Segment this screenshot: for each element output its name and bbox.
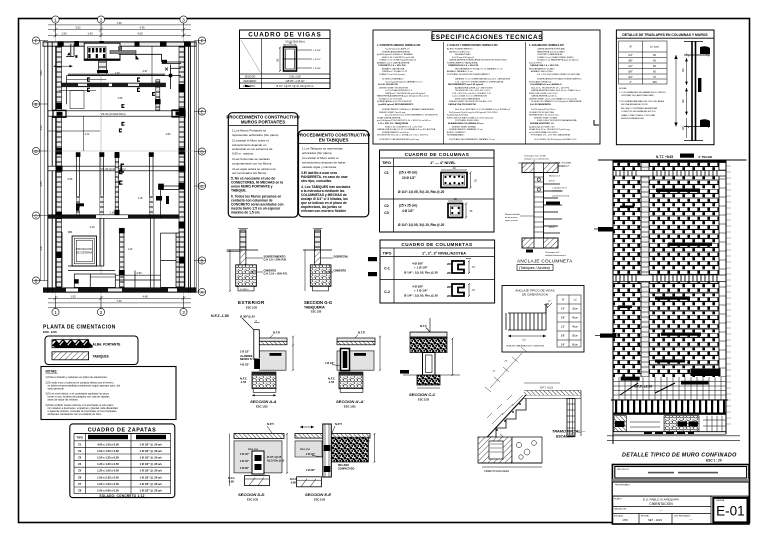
table CUADRO DE COLUMNAS	[380, 150, 495, 232]
svg-text:1.80: 1.80	[166, 133, 171, 136]
top dimension lines	[48, 23, 191, 37]
svg-text:1.93: 1.93	[70, 294, 76, 298]
svg-text:Mortero 1:5: Mortero 1:5	[549, 175, 561, 178]
svg-text:1.18: 1.18	[138, 197, 143, 200]
svg-text:SUELO S2 CONCRETO ver E-030: SUELO S2 CONCRETO ver E-030	[382, 56, 415, 59]
svg-text:0.05 m. maximo.: 0.05 m. maximo.	[232, 152, 254, 156]
svg-text:representan achurados (Ver pla: representan achurados (Ver plano).	[232, 133, 279, 137]
left elevation tag lower	[595, 334, 616, 338]
svg-text:ACERO SOBRECIMIENTO: ACERO SOBRECIMIENTO	[447, 48, 473, 51]
svg-text:h/3: h/3	[681, 99, 685, 103]
svg-text:SECCION: SECCION	[245, 76, 256, 78]
svg-text:2 Ø 3/8": 2 Ø 3/8"	[240, 467, 249, 470]
svg-text:EN TABIQUES: EN TABIQUES	[319, 137, 349, 142]
svg-text:CIMIENTO ESCALERA: CIMIENTO ESCALERA	[484, 470, 509, 473]
svg-text:SET - 2023: SET - 2023	[648, 518, 663, 522]
svg-text:SOLADO: CONCRETO 1:12: SOLADO: CONCRETO 1:12	[99, 494, 144, 498]
svg-text:N.F.C.: N.F.C.	[228, 476, 235, 480]
svg-text:ESC 1/25: ESC 1/25	[247, 497, 259, 501]
svg-text:NOTAS:: NOTAS:	[619, 87, 627, 90]
svg-text:CARGA MUERTA ZONA 3 Df=1.20 m.: CARGA MUERTA ZONA 3 Df=1.20 m. LOSAS 2.0…	[531, 89, 581, 92]
svg-text:ANCLAJE COLUMNETA: ANCLAJE COLUMNETA	[517, 259, 573, 264]
svg-text:3/8": 3/8"	[628, 59, 633, 63]
svg-text:NORMA ZONA 3: NORMA ZONA 3	[455, 53, 471, 56]
svg-text:NORMA SUELO S2 Tp=0.6 seg: NORMA SUELO S2 Tp=0.6 seg	[529, 114, 559, 117]
detail SECCION A'-A'	[325, 331, 381, 409]
grid bubble left D	[32, 147, 39, 154]
grid line col B	[100, 23, 102, 308]
svg-text:N.F.Z.: N.F.Z.	[240, 376, 247, 380]
interior wall pair right mid	[149, 152, 162, 214]
svg-text:DE CIMENTACION: DE CIMENTACION	[522, 292, 548, 296]
svg-text:Z2: Z2	[78, 449, 82, 453]
svg-text:B: B	[200, 259, 203, 264]
svg-text:Ø 1/4": 1@.05, Rto.@.20: Ø 1/4": 1@.05, Rto.@.20	[404, 294, 438, 298]
svg-text:NORMA ARMADO: NORMA ARMADO	[447, 134, 465, 137]
svg-text:DISENO SISMO NORMA: DISENO SISMO NORMA	[452, 125, 476, 128]
svg-text:PANDERETA ALBANILERIA qa=1.00: PANDERETA ALBANILERIA qa=1.00 kg/cm2 Df=…	[377, 95, 430, 98]
detail SECCION C-C	[400, 318, 460, 401]
grid bubble bottom B	[97, 308, 104, 315]
dims on diagonal	[485, 347, 527, 424]
extra dim texts	[68, 97, 171, 251]
svg-text:2.62: 2.62	[39, 70, 43, 76]
grid bubble bottom A	[52, 308, 59, 315]
grid bubble left F	[32, 37, 39, 44]
svg-text:TIPO: TIPO	[76, 436, 83, 440]
svg-text:SOBRECARGA PORTLAND SOBRECIMIE: SOBRECARGA PORTLAND SOBRECIMIENTO	[537, 78, 582, 81]
svg-text:h/3: h/3	[681, 68, 685, 72]
detail stair TRAMO INICIAL	[478, 347, 586, 473]
right dimension lines	[194, 41, 206, 293]
spec title bar	[432, 32, 542, 41]
svg-text:LOSAS 2.0 cm VIGAS DISENO SISM: LOSAS 2.0 cm VIGAS DISENO SISMO	[537, 56, 574, 59]
svg-text:RECUBRIMIENTO qa=1.00 kg/cm2: RECUBRIMIENTO qa=1.00 kg/cm2	[448, 84, 484, 86]
svg-text:C:H 1:10 + 30% P.G.: C:H 1:10 + 30% P.G.	[264, 272, 289, 276]
interior band row E upper (gray)	[54, 65, 182, 80]
svg-text:RECUBRIMIENTO ZONA 3: RECUBRIMIENTO ZONA 3	[529, 68, 555, 71]
svg-text:1/4": 1/4"	[628, 53, 633, 57]
svg-text:1:8 + 25% P.M. DISENO SISMO S/: 1:8 + 25% P.M. DISENO SISMO S/C AZOTEA	[537, 73, 580, 76]
svg-text:CIMENTACIÓN: CIMENTACIÓN	[649, 501, 673, 506]
svg-text:sobrecimiento despues de haber: sobrecimiento despues de haber	[302, 161, 346, 165]
svg-text:KING KONG TECKNOPOR ALBANILERI: KING KONG TECKNOPOR ALBANILERIA	[537, 119, 577, 122]
svg-text:ESC 1 : 20: ESC 1 : 20	[706, 459, 722, 463]
svg-text:TIPO: TIPO	[382, 161, 391, 165]
grid bubble right E	[198, 108, 205, 115]
detail ANCLAJE COLUMNETA	[505, 155, 573, 271]
svg-text:ESPECIFICACIONES TECNICAS: ESPECIFICACIONES TECNICAS	[431, 34, 543, 41]
middle bar with splice	[698, 78, 701, 92]
svg-text:KING KONG SUELO S2 C=2.5: KING KONG SUELO S2 C=2.5	[529, 93, 559, 95]
svg-text:2 Ø 1/2": 2 Ø 1/2"	[240, 460, 249, 463]
svg-text:1/4": 1/4"	[561, 308, 565, 311]
svg-text:TECKNOPOR 1:10 + 30% P.G. C=2.: TECKNOPOR 1:10 + 30% P.G. C=2.5	[455, 90, 491, 92]
svg-text:CUADRO DE COLUMNAS: CUADRO DE COLUMNAS	[405, 152, 470, 157]
svg-text:USAR CONECTORES O SOLDAR: USAR CONECTORES O SOLDAR	[621, 114, 655, 117]
svg-text:fy=4200 kg/cm2 SUELO S2: fy=4200 kg/cm2 SUELO S2	[529, 126, 555, 128]
svg-text:+ 1 Ø 1/4": + 1 Ø 1/4"	[414, 289, 428, 293]
perimeter wall bottom	[43, 287, 196, 292]
svg-text:4.35: 4.35	[139, 26, 145, 30]
svg-text:1° — 4° NIVEL: 1° — 4° NIVEL	[430, 161, 456, 165]
svg-text:2 Ø 5/8": 2 Ø 5/8"	[313, 50, 321, 52]
perimeter wall left	[48, 42, 62, 293]
column body	[534, 173, 544, 239]
svg-text:4 Ø 5/8" + 2 Ø 1/2": 4 Ø 5/8" + 2 Ø 1/2"	[285, 81, 304, 83]
svg-text:SECCION A'-A': SECCION A'-A'	[336, 399, 365, 404]
svg-text:EXTERIOR: EXTERIOR	[238, 300, 265, 305]
svg-text:LONGITUD DE EMPALME EN 70%: LONGITUD DE EMPALME EN 70%	[621, 110, 656, 113]
grid bubble top A	[52, 16, 59, 23]
svg-text:achurados (Ver plano).: achurados (Ver plano).	[302, 151, 333, 155]
zapata corner marks	[76, 196, 169, 211]
column strip (columneta)	[641, 163, 649, 378]
grid line col C	[183, 23, 185, 308]
brick field left panel	[613, 163, 641, 378]
wall outline verticals	[612, 160, 614, 445]
svg-text:+ 1 Ø 1/4": + 1 Ø 1/4"	[414, 266, 428, 270]
svg-text:DIMENSION (a x L x h): DIMENSION (a x L x h)	[94, 435, 122, 439]
small rooms bottom-left	[74, 274, 115, 287]
svg-text:PLANO:: PLANO:	[614, 497, 622, 500]
svg-text:SECCION A-A: SECCION A-A	[250, 399, 276, 404]
svg-text:NORMA MORTERO 1:5: NORMA MORTERO 1:5	[530, 122, 555, 125]
svg-text:N.F.Z.: N.F.Z.	[328, 376, 335, 380]
svg-text:2.96: 2.96	[136, 271, 142, 275]
svg-text:1.50 x 1.20 x 0.50: 1.50 x 1.20 x 0.50	[97, 456, 119, 460]
small corner mark in col3	[594, 120, 599, 125]
grid bubble left E	[32, 100, 39, 107]
svg-text:1 Ø 1/2" @ .20 a/s: 1 Ø 1/2" @ .20 a/s	[139, 456, 162, 460]
svg-text:Tecknopor e=1" Ø 3/8": Tecknopor e=1" Ø 3/8"	[524, 155, 546, 158]
grid bubble left C	[32, 212, 39, 219]
traslapes column drawing	[674, 41, 710, 141]
svg-text:Z6: Z6	[78, 475, 82, 479]
header tick course middle	[613, 275, 726, 282]
svg-text:(25 x 25 cm): (25 x 25 cm)	[399, 204, 417, 208]
svg-text:2. NO EMPALMAR MAS DEL 50% DEL: 2. NO EMPALMAR MAS DEL 50% DEL AREA	[619, 100, 664, 103]
svg-text:50cm: 50cm	[572, 335, 578, 338]
svg-text:qa=1.00 kg/cm2 U=1.5 RECUBRIMI: qa=1.00 kg/cm2 U=1.5 RECUBRIMIENTO TECKN…	[385, 115, 438, 117]
beam band row C (dark segments)	[48, 211, 179, 219]
svg-text:U=1.5 SUELO S2 R=3 (muros) SOL: U=1.5 SUELO S2 R=3 (muros) SOLADO 1:12	[534, 138, 577, 141]
svg-text:Ø 1/4":1@.05, 5@.10, Rto.@.20: Ø 1/4":1@.05, 5@.10, Rto.@.20	[398, 190, 444, 194]
stair block top-left	[66, 43, 120, 75]
svg-text:Df=1.20 m. TECKNOPOR 1:8 + 25%: Df=1.20 m. TECKNOPOR 1:8 + 25% P.M.	[531, 88, 570, 90]
svg-text:CARGA VIVA SOLADO 1:12 COLUMNA: CARGA VIVA SOLADO 1:12 COLUMNAS 4.0 cm S…	[377, 128, 436, 131]
svg-text:1/50: 1/50	[622, 518, 628, 522]
svg-text:1.43: 1.43	[87, 32, 93, 36]
svg-text:TABIQUE.: TABIQUE.	[231, 189, 247, 193]
svg-text:10 Ø 1/2": 10 Ø 1/2"	[402, 176, 416, 180]
svg-text:1. CONCRETO ARMADO: NORMA E-06: 1. CONCRETO ARMADO: NORMA E-060	[377, 44, 421, 47]
svg-text:2.67: 2.67	[39, 245, 43, 251]
svg-text:SOBRECIMIENTO ZAPATAS 7.5 cm: SOBRECIMIENTO ZAPATAS 7.5 cm	[449, 128, 483, 131]
grid bubble top C	[180, 16, 187, 23]
svg-text:MUROS PORTANTES: MUROS PORTANTES	[241, 120, 285, 125]
svg-text:TABIQUERIA: TABIQUERIA	[304, 306, 325, 310]
svg-text:vigas y techo: vigas y techo	[505, 219, 519, 222]
svg-text:de descanso: de descanso	[505, 217, 518, 219]
svg-text:1°, 2°, 3° NIVEL/AZOTEA: 1°, 2°, 3° NIVEL/AZOTEA	[422, 252, 466, 256]
interior wall band x120 lower	[119, 228, 125, 287]
svg-text:SOBRECARGA PANDERETA: SOBRECARGA PANDERETA	[382, 50, 410, 53]
svg-text:2.97: 2.97	[115, 72, 120, 75]
svg-text:suelo presente.: suelo presente.	[48, 387, 65, 390]
title block outer frame	[612, 465, 749, 525]
grid bubble left B	[32, 277, 39, 284]
svg-text:Z5: Z5	[78, 469, 82, 473]
svg-text:Z1: Z1	[78, 442, 82, 446]
traslapes mini table	[619, 41, 668, 84]
svg-text:60cm: 60cm	[572, 344, 578, 347]
svg-text:N.P.T. +0.15: N.P.T. +0.15	[540, 387, 554, 390]
svg-text:1 Ø 1/2" @ .20 a/s: 1 Ø 1/2" @ .20 a/s	[139, 462, 162, 466]
svg-text:ESC 1/25: ESC 1/25	[246, 306, 258, 310]
svg-text:CUADRO DE COLUMNETAS: CUADRO DE COLUMNETAS	[401, 242, 472, 247]
svg-text:Ø 1/4":1@.05, 5@.10, Rto.@.20: Ø 1/4":1@.05, 5@.10, Rto.@.20	[398, 223, 444, 227]
svg-text:1 Ø 1/2" @ .20 a/s: 1 Ø 1/2" @ .20 a/s	[139, 489, 162, 493]
svg-text:2 Ø 1/2": 2 Ø 1/2"	[240, 453, 249, 456]
interior wall band mid room	[115, 152, 120, 215]
svg-text:SECCION C-C: SECCION C-C	[409, 392, 436, 397]
grid bubble right C2	[198, 182, 205, 189]
second strip	[612, 482, 749, 496]
svg-text:KING KONG PANDERETA: KING KONG PANDERETA	[455, 98, 480, 101]
leader marks left of columnetas table	[368, 257, 377, 261]
svg-text:ver E-030 NORMA CICLOPEO: ver E-030 NORMA CICLOPEO	[529, 131, 558, 134]
svg-text:E: E	[200, 110, 203, 115]
svg-text:UBICACION:: UBICACION:	[614, 507, 627, 510]
svg-text:CONCRETO 1:8 + 25% P.M.: CONCRETO 1:8 + 25% P.M.	[378, 65, 406, 67]
title CUADRO DE VIGAS	[240, 38, 331, 40]
detail SECCION G-G tabiqueria	[303, 229, 348, 314]
svg-text:LOSAS 2.0 cm R=3 (muros): LOSAS 2.0 cm R=3 (muros)	[379, 73, 405, 76]
svg-text:Z=0.35 TIPO I: Z=0.35 TIPO I	[529, 62, 542, 64]
svg-text:-0.80: -0.80	[290, 480, 296, 484]
svg-text:2 Ø 3/8": 2 Ø 3/8"	[306, 469, 315, 472]
top area small details	[110, 46, 152, 83]
spec column dividers	[443, 42, 445, 144]
detail EXTERIOR wall-foundation	[227, 229, 288, 310]
svg-text:conjuntamente con los Muros.: conjuntamente con los Muros.	[232, 161, 272, 165]
svg-text:C=2.5 LOSAS 2.0 cm CIMENTACION: C=2.5 LOSAS 2.0 cm CIMENTACION	[452, 95, 487, 98]
svg-text:ESC. 1/50: ESC. 1/50	[43, 330, 57, 334]
svg-text:2.Levantar el Muro sobre el: 2.Levantar el Muro sobre el	[232, 138, 269, 142]
svg-text:1.00 x 2.35 x 0.50: 1.00 x 2.35 x 0.50	[97, 475, 119, 479]
svg-text:LAMINA:: LAMINA:	[716, 499, 725, 502]
svg-text:7.46: 7.46	[116, 21, 122, 25]
svg-text:N.F.C.: N.F.C.	[290, 477, 297, 481]
svg-text:1/2": 1/2"	[628, 64, 633, 68]
svg-text:fy=4200 kg/cm2 E-060: fy=4200 kg/cm2 E-060	[447, 115, 469, 117]
svg-text:PORTLAND RECUBRIMIENTO ZAPATAS: PORTLAND RECUBRIMIENTO ZAPATAS 7.5 cm	[449, 138, 495, 141]
svg-text:3/4": 3/4"	[628, 75, 633, 79]
svg-text:f'c=210 kg/cm2 Df=1.20 m.: f'c=210 kg/cm2 Df=1.20 m.	[531, 109, 556, 111]
svg-text:-0.80: -0.80	[228, 479, 234, 483]
svg-text:R=3 (muros) Tp=0.6 seg f'c=210: R=3 (muros) Tp=0.6 seg f'c=210 kg/cm2 CI…	[449, 111, 498, 114]
right mid-wall columns and lines	[159, 184, 180, 218]
svg-text:5/8": 5/8"	[628, 70, 633, 74]
svg-text:CARGA MUERTA e=0.05 m.: CARGA MUERTA e=0.05 m.	[531, 95, 558, 98]
svg-text:Ø 1/4": Ø 1/4"	[549, 181, 555, 183]
svg-text:N.T.P.: N.T.P.	[358, 331, 365, 335]
svg-text:C:H 1:8 + 25% P.M.: C:H 1:8 + 25% P.M.	[264, 258, 287, 262]
svg-text:1:10 + 30% P.G. e=0.05 m. SOLA: 1:10 + 30% P.G. e=0.05 m. SOLADO 1:12	[452, 92, 492, 95]
svg-text:1/2": 1/2"	[561, 326, 565, 329]
svg-text:1 Ø 1/2" @ .20 a/s: 1 Ø 1/2" @ .20 a/s	[139, 482, 162, 486]
svg-text:1.50 x 1.50 x 0.50: 1.50 x 1.50 x 0.50	[97, 449, 119, 453]
svg-text:ARMADO CARGA VIVA: ARMADO CARGA VIVA	[382, 68, 405, 71]
svg-text:Le (cm): Le (cm)	[650, 45, 659, 49]
svg-text:DISENO SISMO ZONA 3: DISENO SISMO ZONA 3	[534, 116, 558, 119]
left rooms upper lines	[48, 91, 100, 151]
svg-text:1.00 x 0.80 x 0.50: 1.00 x 0.80 x 0.50	[97, 489, 119, 493]
svg-text:CARGA VIVA TECKNOPOR: CARGA VIVA TECKNOPOR	[448, 103, 476, 106]
bottom beam	[522, 238, 558, 248]
svg-text:TIPO: TIPO	[383, 252, 392, 256]
svg-text:N.P.T.: N.P.T.	[267, 422, 274, 426]
svg-text:ARMADO U=1.5 CARGA MUERTA: ARMADO U=1.5 CARGA MUERTA	[377, 61, 410, 64]
bottom dimension lines	[48, 296, 191, 309]
svg-text:f'c=210 kg/cm2 LADRILLO: f'c=210 kg/cm2 LADRILLO	[385, 48, 410, 51]
legend box	[45, 336, 138, 365]
svg-text:4° TECHO: 4° TECHO	[698, 155, 713, 159]
svg-text:DE CISTERNA: DE CISTERNA	[76, 251, 92, 254]
svg-text:ZAPATAS 7.5 cm SOBRECARGA Df=1: ZAPATAS 7.5 cm SOBRECARGA Df=1.20 m. CAR…	[455, 78, 510, 81]
svg-text:1:10 + 30% P.G. TABIQUERIA: 1:10 + 30% P.G. TABIQUERIA	[378, 122, 408, 125]
svg-text:C1: C1	[384, 171, 389, 175]
svg-text:N.F.P. ±0.00: N.F.P. ±0.00	[634, 385, 652, 389]
svg-text:sellador con cemento fino: sellador con cemento fino	[524, 157, 550, 160]
svg-text:2. SUELOS Y CIMENTACIONES: NOR: 2. SUELOS Y CIMENTACIONES: NORMA E-050	[447, 44, 498, 47]
diagonal in left cell	[241, 40, 261, 73]
top hook bars	[700, 46, 710, 54]
right wall column	[567, 399, 575, 437]
column tie marks mid	[121, 92, 155, 126]
cisterna projection	[72, 236, 96, 266]
bottom boundary lines	[607, 435, 740, 437]
svg-text:4@.10 Rto.@.25: 4@.10 Rto.@.25	[267, 459, 285, 462]
svg-text:4.Las vigas solera se vacian u: 4.Las vigas solera se vacian una	[232, 167, 276, 171]
svg-text:1.50: 1.50	[61, 32, 67, 36]
note box PROCEDIMIENTO CONSTRUCTIVO EN TABIQUES	[297, 130, 371, 216]
svg-text:ALBANILERIA COLUMNAS 4.0 cm: ALBANILERIA COLUMNAS 4.0 cm	[448, 122, 483, 125]
svg-text:SOLADO 1:12 ver E-030: SOLADO 1:12 ver E-030	[379, 98, 403, 101]
traslapes notes	[619, 87, 666, 120]
detail SECCION A-A	[240, 315, 294, 409]
stair slab underside	[481, 395, 526, 444]
svg-text:C=2.5 VIGAS MORTERO 1:5: C=2.5 VIGAS MORTERO 1:5	[385, 89, 413, 92]
gray separator band	[612, 479, 749, 482]
detail box ANCLAJE TIPICO DE VIGAS DE CIMENTACION	[502, 286, 584, 353]
svg-text:Ø 1/4": Ø 1/4"	[549, 227, 555, 229]
header tick course top	[613, 171, 726, 177]
svg-text:SOBRECARGA C=2.5 TECKNOPOR: SOBRECARGA C=2.5 TECKNOPOR	[377, 100, 412, 103]
svg-text:SOBRECIMIENTO e=0.05 m.: SOBRECIMIENTO e=0.05 m.	[382, 132, 410, 134]
perimeter wall right	[179, 42, 197, 293]
svg-text:40cm: 40cm	[572, 317, 578, 320]
svg-text:CIMIENTO: CIMIENTO	[334, 269, 347, 273]
svg-text:VS-30 (0.30x0.60m): VS-30 (0.30x0.60m)	[100, 112, 125, 116]
svg-text:1.93: 1.93	[39, 125, 43, 131]
svg-text:CARGA MUERTA PORTLAND: CARGA MUERTA PORTLAND	[537, 48, 566, 51]
right dimension ticks column	[727, 166, 732, 424]
svg-text:1 Ø 1/2" @ .20 a/s: 1 Ø 1/2" @ .20 a/s	[139, 469, 162, 473]
svg-text:REFUERZO: REFUERZO	[144, 435, 158, 439]
svg-text:ARMADO KING KONG: ARMADO KING KONG	[531, 70, 553, 73]
svg-text:2 Ø 5/8": 2 Ø 5/8"	[313, 68, 321, 70]
grid line col A	[55, 23, 57, 308]
svg-text:qa=1.00 kg/cm2 TECKNOPOR 1:10: qa=1.00 kg/cm2 TECKNOPOR 1:10 + 30% P.G.…	[377, 120, 431, 122]
svg-text:PORTLAND KING KONG: PORTLAND KING KONG	[455, 119, 479, 122]
svg-text:0.95: 0.95	[68, 178, 73, 181]
svg-text:(Tabiques / Azotea): (Tabiques / Azotea)	[519, 266, 550, 270]
svg-text:1 alambre N° 8: 1 alambre N° 8	[552, 187, 567, 190]
svg-text:Z7: Z7	[78, 482, 82, 486]
svg-text:3. ALBANILERIA: NORMA E-070: 3. ALBANILERIA: NORMA E-070	[529, 44, 565, 47]
svg-text:1. LOS EMPALMES SE HARAN EN EL: 1. LOS EMPALMES SE HARAN EN EL TERCIO	[619, 91, 666, 94]
svg-text:ARMADO ZAPATAS 7.5 cm: ARMADO ZAPATAS 7.5 cm	[447, 70, 473, 73]
wall bottom grid zone	[613, 369, 726, 401]
svg-text:1.Los Muros Portantes se: 1.Los Muros Portantes se	[232, 129, 267, 133]
grid bubble right A2	[198, 288, 205, 295]
mechas	[544, 184, 563, 233]
svg-text:vez terminados los Muros.: vez terminados los Muros.	[232, 171, 267, 175]
right leader labels	[549, 175, 570, 230]
svg-text:1) Para el trazado y replanteo: 1) Para el trazado y replanteo ver plano…	[46, 376, 108, 379]
svg-text:3.Las Columnas se vaciaran: 3.Las Columnas se vaciaran	[232, 157, 270, 161]
svg-text:100: 100	[652, 80, 657, 84]
svg-text:5/8": 5/8"	[561, 335, 565, 338]
svg-text:PORTLAND 1:8 + 25% P.M. TABIQU: PORTLAND 1:8 + 25% P.M. TABIQUERIA	[531, 134, 570, 137]
table body divider	[261, 39, 263, 75]
svg-text:CONCRETO PANDERETA: CONCRETO PANDERETA	[537, 53, 562, 56]
svg-text:DISENO SISMO Tp=0.6 seg: DISENO SISMO Tp=0.6 seg	[379, 112, 406, 114]
bottom left cells	[612, 496, 711, 524]
svg-text:Z=0.35 18 HUECOS: Z=0.35 18 HUECOS	[378, 84, 398, 86]
svg-text:4.48: 4.48	[142, 294, 148, 298]
svg-text:CONCRETO CARGA MUERTA Tp=0.6 s: CONCRETO CARGA MUERTA Tp=0.6 seg	[379, 138, 420, 141]
steps	[486, 399, 526, 438]
svg-text:ALBA. PORTANTE: ALBA. PORTANTE	[93, 343, 121, 347]
level line at wall top	[598, 159, 747, 161]
brick field middle panel	[649, 163, 719, 378]
svg-text:1.05: 1.05	[118, 97, 123, 100]
svg-text:CENTRAL DE LA ALTURA LIBRE.: CENTRAL DE LA ALTURA LIBRE.	[621, 94, 655, 97]
svg-text:DIB. REVISADO:: DIB. REVISADO:	[674, 515, 691, 518]
svg-text:1 Ø 1/2" @ .20 a/s: 1 Ø 1/2" @ .20 a/s	[139, 475, 162, 479]
svg-text:F: F	[35, 39, 38, 44]
svg-text:fy=4200 kg/cm2 JUNTA e=1" ARMA: fy=4200 kg/cm2 JUNTA e=1" ARMADO	[377, 53, 414, 56]
svg-text:1.20: 1.20	[128, 248, 133, 251]
table CUADRO DE COLUMNETAS	[380, 240, 495, 303]
sheet number cell	[713, 498, 747, 523]
svg-text:CARGA MUERTA SOBRECARGA TECKNO: CARGA MUERTA SOBRECARGA TECKNOPOR KING K…	[449, 59, 507, 62]
grid bubble right B2	[198, 257, 205, 264]
svg-text:ESC 1/25: ESC 1/25	[314, 497, 326, 501]
svg-text:DE UNA MISMA SECCION.: DE UNA MISMA SECCION.	[621, 103, 648, 106]
svg-text:1.20 x 1.00 x 0.50: 1.20 x 1.00 x 0.50	[97, 469, 119, 473]
svg-text:4.05: 4.05	[137, 32, 143, 36]
svg-text:Z3: Z3	[78, 456, 82, 460]
svg-text:CARGA VIVA 1:8 + 25% P.M.: CARGA VIVA 1:8 + 25% P.M.	[530, 64, 559, 67]
svg-text:VIGA DE CIMENTACION / CONEXION: VIGA DE CIMENTACION / CONEXION	[506, 345, 544, 348]
svg-text:1 Ø 1/2" @ .20 a/s: 1 Ø 1/2" @ .20 a/s	[139, 449, 162, 453]
svg-text:C3: C3	[384, 211, 389, 215]
beam section drawing	[277, 42, 322, 72]
